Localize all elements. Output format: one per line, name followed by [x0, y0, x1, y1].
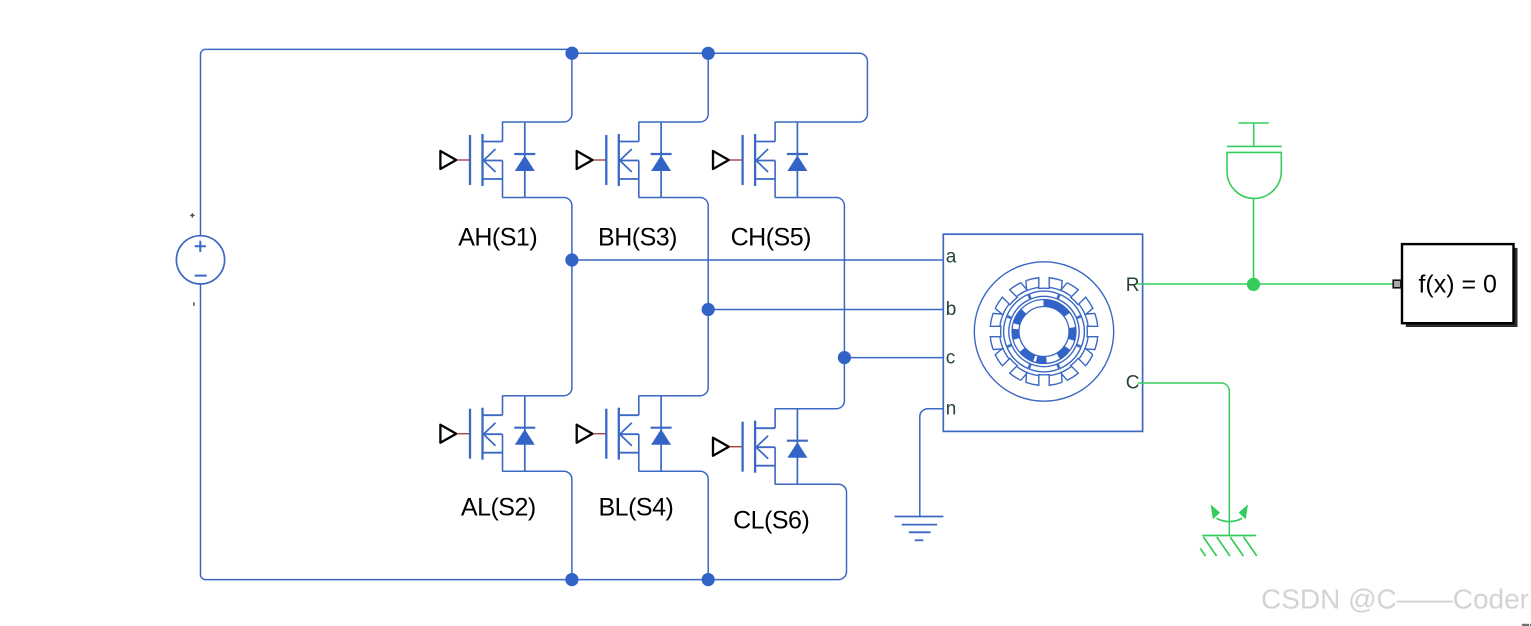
- stator pole NW: [993, 281, 1028, 316]
- svg-text:BH(S3): BH(S3): [598, 223, 677, 251]
- transistor CH(S5): [713, 122, 808, 198]
- DC voltage source V1: [176, 236, 224, 284]
- wire: AL source to bottom bus: [525, 471, 572, 579]
- stator shoe E: [1077, 317, 1085, 347]
- port label - of source: [193, 302, 195, 306]
- wire: BH drain riser: [661, 53, 708, 122]
- stator shoe NW: [1005, 293, 1031, 319]
- corner mark: [1522, 624, 1529, 626]
- stator pole E: [1085, 313, 1098, 349]
- node b junction: [702, 303, 715, 316]
- svg-text:R: R: [1126, 275, 1140, 296]
- wire: left rail from source top to top bus: [201, 49, 571, 235]
- svg-text:CH(S5): CH(S5): [731, 223, 811, 251]
- wire: bottom bus from source to CL source: [201, 284, 847, 580]
- svg-text:CL(S6): CL(S6): [733, 506, 809, 534]
- electrical reference ground: [895, 517, 944, 541]
- solver configuration block shadow: [1406, 248, 1518, 327]
- wire: neutral n to ground: [920, 409, 949, 517]
- stator shoe SW: [1005, 344, 1031, 370]
- motor icon: [974, 262, 1113, 401]
- svg-text:n: n: [946, 399, 957, 420]
- motor outer circle: [974, 262, 1113, 401]
- stator pole SE: [1060, 348, 1095, 383]
- junction node top bus 1: [565, 47, 578, 60]
- wire: CH source to node c to CL drain: [797, 198, 844, 409]
- wire: phase a to motor: [572, 259, 948, 261]
- node a junction: [565, 253, 578, 266]
- svg-text:f(x) = 0: f(x) = 0: [1418, 271, 1497, 299]
- port label + of source: [190, 213, 194, 217]
- stator pole S: [1026, 372, 1062, 385]
- wire: phase b to motor: [708, 309, 948, 311]
- svg-text:BL(S4): BL(S4): [598, 494, 673, 522]
- wire: phase c to motor: [844, 357, 948, 359]
- motor block BLDC: [943, 234, 1142, 431]
- stator pole N: [1026, 278, 1062, 291]
- wire: motor C to rotational reference (green): [1138, 383, 1230, 535]
- svg-text:b: b: [946, 299, 957, 320]
- svg-text:a: a: [946, 247, 957, 268]
- transistor AL(S2): [440, 396, 535, 472]
- solver configuration block f(x)=0: [1402, 244, 1514, 323]
- wire: BL source to bottom bus: [661, 471, 708, 579]
- wire: AH drain riser: [525, 53, 572, 122]
- transistor AH(S1): [440, 122, 535, 198]
- solver port square: [1393, 280, 1401, 288]
- rotor magnet segments: [1016, 303, 1073, 360]
- junction node top bus 2: [702, 47, 715, 60]
- transistor BL(S4): [577, 396, 672, 472]
- svg-text:c: c: [946, 348, 956, 369]
- transistor CL(S6): [713, 409, 808, 485]
- green junction node: [1247, 278, 1260, 291]
- stator shoe W: [1004, 317, 1012, 347]
- stator pole NE: [1060, 281, 1095, 316]
- stator shoe SE: [1057, 344, 1083, 370]
- wire: motor R to solver port (green): [1138, 283, 1394, 285]
- stator pole W: [990, 313, 1003, 349]
- junction node bottom bus 2: [702, 573, 715, 586]
- junction node bottom bus 1: [565, 573, 578, 586]
- stator shoe S: [1029, 364, 1059, 372]
- transistor BH(S3): [577, 122, 672, 198]
- stator shoe NE: [1057, 293, 1083, 319]
- rotor ring inner: [1019, 307, 1069, 357]
- svg-text:C: C: [1126, 373, 1140, 394]
- mechanical rotational reference: [1200, 504, 1257, 556]
- svg-text:AH(S1): AH(S1): [458, 223, 537, 251]
- wire: AH source to node a to AL drain: [525, 198, 572, 396]
- rotor ring outer: [1012, 300, 1076, 364]
- inertia J1: [1227, 123, 1282, 284]
- node c junction: [838, 351, 851, 364]
- svg-text:CSDN @C——Coder: CSDN @C——Coder: [1261, 584, 1529, 615]
- stator pole SW: [993, 348, 1028, 383]
- wire: BH source to node b to BL drain: [661, 198, 708, 396]
- wire: top bus to CH drain: [572, 53, 867, 122]
- svg-text:AL(S2): AL(S2): [461, 494, 536, 522]
- stator shoe N: [1029, 291, 1059, 299]
